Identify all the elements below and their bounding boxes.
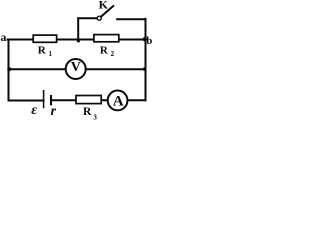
svg-text:V: V [71, 60, 81, 75]
ammeter circle [108, 91, 128, 111]
svg-text:R: R [83, 106, 92, 118]
wire switch branch vertical [77, 18, 79, 39]
resistor R1 [33, 35, 56, 42]
switch K pivot circle [97, 16, 101, 20]
junction dot between R1 and R2 [77, 39, 80, 42]
wire left vertical a to bottom-left [8, 40, 10, 101]
svg-text:2: 2 [111, 50, 115, 58]
battery plate long [43, 90, 45, 108]
svg-text:b: b [146, 35, 152, 47]
wire switch row right [117, 18, 145, 20]
svg-text:R: R [38, 45, 47, 57]
switch K blade [101, 5, 114, 16]
wire voltmeter row [9, 68, 146, 70]
resistor R3 [76, 96, 101, 104]
junction dot voltmeter row right [143, 67, 147, 71]
svg-text:3: 3 [93, 113, 97, 121]
svg-text:A: A [113, 94, 124, 110]
junction dot voltmeter row left [7, 67, 11, 71]
resistor R2 [94, 35, 119, 42]
voltmeter circle [66, 59, 86, 79]
wire switch row left [78, 17, 97, 19]
wire bottom row left segment to battery [9, 100, 44, 102]
svg-text:ε: ε [31, 103, 37, 118]
svg-text:K: K [99, 0, 109, 12]
wire bottom row right segment from battery [52, 99, 146, 101]
svg-text:a: a [0, 30, 6, 44]
node b junction dot [143, 37, 147, 41]
battery plate short [50, 95, 52, 105]
svg-text:r: r [51, 104, 57, 119]
svg-text:1: 1 [49, 50, 53, 58]
wire right vertical [145, 19, 147, 101]
wire top horizontal a-b [8, 39, 147, 41]
svg-text:R: R [100, 45, 109, 57]
